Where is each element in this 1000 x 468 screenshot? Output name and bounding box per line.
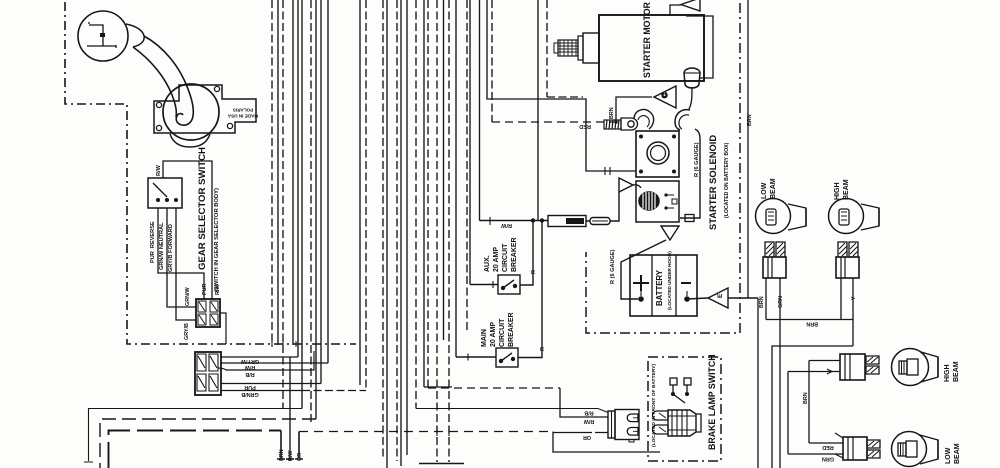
- motor top wire: [670, 5, 681, 15]
- cable arc over solenoid: [634, 110, 654, 129]
- inline lug on R6: [685, 215, 694, 222]
- wire GRN/B from C2: [221, 390, 302, 392]
- wire harness A2: [277, 0, 279, 345]
- svg-text:BREAKER: BREAKER: [508, 312, 515, 347]
- wire harness B7: [436, 0, 438, 462]
- plate screw 4: [227, 123, 232, 128]
- battery plus symbol: [633, 275, 649, 291]
- svg-text:R/B: R/B: [245, 371, 254, 377]
- svg-text:HIGH: HIGH: [944, 365, 951, 383]
- wire harness B13: [537, 0, 539, 221]
- shifter handle tube: [144, 36, 193, 116]
- svg-text:GRY/B: GRY/B: [184, 323, 190, 340]
- starter solenoid lower box: [636, 181, 679, 222]
- svg-text:20 AMP: 20 AMP: [493, 247, 500, 272]
- connector LOW top: [763, 242, 786, 278]
- shift pattern dot: [100, 33, 105, 37]
- wire PUR from switch: [158, 208, 204, 299]
- wire RED to low lamp bottom: [809, 442, 843, 444]
- shift gate pattern: [87, 22, 116, 48]
- wire bottom foot: [419, 463, 464, 465]
- shifter neck: [126, 24, 144, 47]
- svg-text:BEAM: BEAM: [770, 178, 777, 199]
- wire harness A7: [310, 0, 312, 425]
- battery minus symbol: [681, 282, 691, 284]
- wire harness B6 dashed bus riser: [427, 0, 429, 388]
- motor shaft collar: [583, 33, 599, 63]
- plate screw 2: [214, 86, 219, 91]
- svg-text:STARTER SOLENOID: STARTER SOLENOID: [707, 135, 718, 230]
- wire harness B0a: [382, 0, 384, 458]
- solenoid coil: [639, 192, 659, 210]
- svg-text:GRN/W NEUTRAL: GRN/W NEUTRAL: [159, 222, 165, 270]
- wire harness B14: [546, 0, 548, 97]
- wire OR dashed bus: [299, 431, 553, 433]
- wire R/W main run: [480, 192, 620, 225]
- wire high mid feed lower: [788, 371, 840, 373]
- wire BRN stub: [277, 431, 285, 460]
- svg-text:RED: RED: [579, 123, 591, 129]
- wire harness A10 R/W riser: [327, 0, 329, 363]
- wire Y high lamp: [852, 278, 854, 346]
- RED cable crimp: [604, 120, 621, 129]
- wire hook into coil: [633, 185, 641, 188]
- wire battery minus to E: [687, 298, 708, 299]
- boot lower lip: [170, 134, 210, 147]
- wire harness B4 R/B feed: [415, 0, 417, 409]
- wire harness B12 RED dashed feed: [491, 0, 493, 122]
- svg-text:BRN: BRN: [279, 449, 285, 461]
- svg-text:R/B: R/B: [584, 410, 593, 416]
- solenoid right cable hook: [675, 110, 690, 130]
- svg-text:R/W: R/W: [583, 418, 594, 424]
- connector C2 main harness: [195, 352, 221, 395]
- svg-text:R/W: R/W: [156, 164, 162, 176]
- svg-text:LOW: LOW: [761, 182, 768, 199]
- svg-text:R: R: [540, 347, 546, 351]
- handle hook end in boot: [176, 114, 193, 126]
- wire harness B8: [448, 0, 450, 462]
- svg-text:C: C: [660, 92, 669, 98]
- wire harness B1: [396, 0, 398, 461]
- wire harness B0b: [386, 0, 388, 468]
- svg-text:AUX.: AUX.: [484, 255, 491, 272]
- mounting plate: [154, 85, 256, 133]
- main circuit breaker: [456, 221, 542, 367]
- inline connector pair male: [590, 218, 610, 225]
- svg-text:PUR: PUR: [244, 384, 255, 390]
- wire C to junction: [616, 97, 652, 122]
- svg-text:GEAR SELECTOR SWITCH: GEAR SELECTOR SWITCH: [197, 147, 208, 270]
- svg-text:LOW: LOW: [945, 447, 952, 464]
- wire BRN trunk upper: [747, 0, 749, 298]
- starter solenoid upper box: [636, 110, 690, 177]
- pressure switch tip: [696, 414, 701, 432]
- wire GRN/B dashed link: [302, 390, 366, 392]
- wire E to BRN trunk: [728, 297, 758, 299]
- switch arm: [153, 183, 167, 197]
- wire jog y97: [547, 96, 583, 98]
- svg-text:MADE IN USA: MADE IN USA: [227, 114, 258, 119]
- svg-text:PUR REVERSE: PUR REVERSE: [150, 221, 156, 263]
- svg-text:R: R: [531, 270, 537, 274]
- svg-text:R (6 GAUGE): R (6 GAUGE): [694, 142, 700, 177]
- wire cap to solenoid hook: [689, 87, 692, 109]
- battery dashed enclosure: [586, 3, 740, 333]
- brake pressure switch body: [653, 410, 702, 436]
- svg-text:R/W: R/W: [500, 222, 512, 228]
- aux circuit breaker: [470, 221, 533, 294]
- wire bus drop x560: [560, 388, 608, 417]
- wire high mid feed upper: [809, 360, 840, 362]
- connector triangle top: [681, 0, 700, 11]
- svg-text:BRAKE LAMP SWITCH: BRAKE LAMP SWITCH: [707, 354, 717, 450]
- wire solenoid feed upper: [487, 0, 636, 171]
- connector triangle solenoid coil: [619, 178, 633, 192]
- svg-text:(LOCATED ON BATTERY BOX): (LOCATED ON BATTERY BOX): [724, 142, 730, 218]
- eyelet terminal: [621, 118, 638, 130]
- svg-text:GRN/B: GRN/B: [241, 391, 258, 397]
- wire harness B2: [400, 0, 402, 466]
- wire BRN crossover: [766, 319, 853, 321]
- wire harness A5b GRY/W riser: [297, 0, 299, 357]
- wire harness A12: [365, 0, 367, 391]
- wire harness A3: [282, 0, 284, 408]
- wire bottom-left middle: [100, 419, 316, 468]
- wire RED dashed: [492, 121, 614, 123]
- lamp LOW BEAM top: [756, 199, 807, 234]
- wire harness B9 MAIN feed: [455, 0, 457, 357]
- shifter knob: [78, 11, 128, 61]
- wire harness B10 AUX feed: [469, 0, 471, 285]
- wire drop x809: [808, 361, 810, 444]
- wire harness A5: [292, 0, 294, 345]
- plate screw 3: [156, 125, 161, 130]
- starter motor: [554, 5, 704, 81]
- wire bottom-left inner: [109, 431, 282, 468]
- svg-text:(SWITCH IN GEAR SELECTOR BODY): (SWITCH IN GEAR SELECTOR BODY): [214, 188, 220, 292]
- svg-text:OR: OR: [583, 434, 591, 440]
- wire GRN to low lamp bottom: [788, 453, 843, 455]
- svg-text:(LOCATED UNDER HOOD): (LOCATED UNDER HOOD): [667, 251, 672, 310]
- svg-text:BEAM: BEAM: [953, 361, 960, 382]
- motor terminal cap: [684, 16, 713, 109]
- connector triangle E: [708, 288, 728, 308]
- wire solenoid right R6: [680, 129, 700, 218]
- junction dot RED/BRN: [614, 120, 618, 124]
- wire high lamp left pin: [840, 278, 842, 320]
- console bus crossing ticks: [272, 341, 321, 347]
- svg-text:BRN: BRN: [803, 392, 809, 404]
- wire harness A1: [271, 0, 273, 346]
- svg-text:R/W: R/W: [288, 450, 294, 461]
- wire R/B from C2: [218, 351, 314, 370]
- svg-text:20 AMP: 20 AMP: [490, 322, 497, 347]
- wire GRN/W from switch: [167, 208, 196, 307]
- gear selector switch box: [148, 178, 182, 208]
- wire from C1 right: [220, 313, 226, 344]
- wire harness B3: [406, 0, 408, 455]
- svg-text:BRN: BRN: [747, 114, 753, 126]
- switch terminal dots: [157, 199, 160, 202]
- wire bottom-left outer: [84, 409, 302, 463]
- wire harness A9 PUR riser: [320, 0, 322, 384]
- svg-text:BRN: BRN: [759, 296, 765, 308]
- wire harness A4 R/W drop: [289, 357, 291, 461]
- wire cap loop: [686, 16, 713, 78]
- wire harness A6: [301, 0, 303, 409]
- svg-text:GRN: GRN: [822, 456, 834, 462]
- wire R/B to brake connector: [416, 409, 608, 413]
- arrow on feed: [827, 369, 832, 374]
- lamp HIGH BEAM mid right: [840, 349, 938, 386]
- svg-text:GRY/B FORWARD: GRY/B FORWARD: [168, 224, 174, 272]
- svg-text:GRY/W: GRY/W: [240, 358, 259, 364]
- svg-text:CIRCUIT: CIRCUIT: [502, 243, 509, 272]
- wire harness A8: [315, 0, 317, 419]
- junction ticks y171: [605, 167, 610, 175]
- shifter boot circle: [163, 84, 219, 140]
- svg-text:GRN: GRN: [778, 296, 784, 308]
- wire GRY/B from switch: [176, 208, 196, 320]
- plate screw 1: [156, 102, 161, 107]
- wire BRN low lamp pin: [765, 278, 767, 320]
- wire GRN low lamp: [779, 278, 781, 468]
- svg-text:BRN: BRN: [806, 321, 818, 327]
- svg-text:POLARIS: POLARIS: [233, 108, 253, 113]
- wire stub y387: [424, 386, 452, 388]
- wire drop x788: [787, 372, 789, 455]
- battery box: [630, 255, 697, 316]
- svg-text:E: E: [717, 293, 724, 298]
- svg-text:GRN/W: GRN/W: [185, 287, 191, 306]
- made in usa polaris label: [227, 108, 258, 119]
- wire dashed bus y388: [428, 387, 560, 389]
- connector triangle solenoid bottom: [661, 226, 679, 240]
- wire harness B5: [423, 0, 425, 387]
- svg-text:R/W: R/W: [244, 364, 255, 370]
- svg-text:MAIN: MAIN: [481, 329, 488, 347]
- inline connector pair female: [548, 216, 610, 227]
- svg-text:BEAM: BEAM: [843, 179, 850, 200]
- wire R/W into switch top: [163, 161, 212, 299]
- motor splined shaft: [558, 40, 578, 56]
- svg-text:R/W: R/W: [215, 284, 221, 295]
- brake lamp switch dashed box: [648, 357, 721, 461]
- svg-text:BEAM: BEAM: [954, 443, 961, 464]
- lamp LOW BEAM bottom right: [835, 432, 938, 467]
- svg-text:PUR: PUR: [202, 284, 208, 295]
- connector C1 gear selector: [196, 299, 226, 344]
- wire PUR from C2: [221, 383, 321, 385]
- console dashed outline: [65, 2, 356, 344]
- svg-text:RED: RED: [822, 444, 833, 450]
- wire BRN trunk drop: [757, 298, 759, 468]
- connector triangle C: [616, 86, 676, 122]
- wire solenoid to battery plus: [621, 240, 666, 299]
- wire OR stub: [295, 432, 303, 460]
- svg-text:OR: OR: [297, 453, 303, 461]
- brake connector: [608, 410, 639, 443]
- wire GRY/W from C2: [221, 356, 298, 358]
- pressure switch lugs: [653, 411, 669, 420]
- brake switch contact symbol: [670, 378, 691, 403]
- battery terminals: [638, 296, 644, 302]
- wire harness B7b: [443, 0, 445, 340]
- lamp HIGH BEAM top: [829, 199, 880, 234]
- wire R/W stub foot: [286, 458, 294, 460]
- bottom left corner paths: [84, 409, 553, 468]
- svg-text:BATTERY: BATTERY: [655, 269, 664, 306]
- svg-text:Y: Y: [851, 296, 857, 300]
- svg-text:BRN: BRN: [609, 107, 615, 119]
- svg-text:R (6 GAUGE): R (6 GAUGE): [610, 249, 616, 284]
- connector HIGH top: [836, 242, 859, 278]
- wire harness A11: [359, 0, 361, 385]
- wire OR to brake connector: [553, 432, 660, 453]
- wire harness B11 RW main feed: [479, 0, 481, 221]
- wire Y crossover: [772, 346, 853, 468]
- bus crossing ticks bottom: [437, 427, 449, 436]
- wire R/W from C2: [221, 362, 328, 364]
- wire harness B8b: [466, 0, 468, 330]
- svg-text:HIGH: HIGH: [834, 183, 841, 201]
- coil terminal dots: [664, 193, 667, 196]
- svg-text:BREAKER: BREAKER: [511, 237, 518, 272]
- svg-text:STARTER MOTOR: STARTER MOTOR: [642, 1, 652, 78]
- svg-text:CIRCUIT: CIRCUIT: [499, 318, 506, 347]
